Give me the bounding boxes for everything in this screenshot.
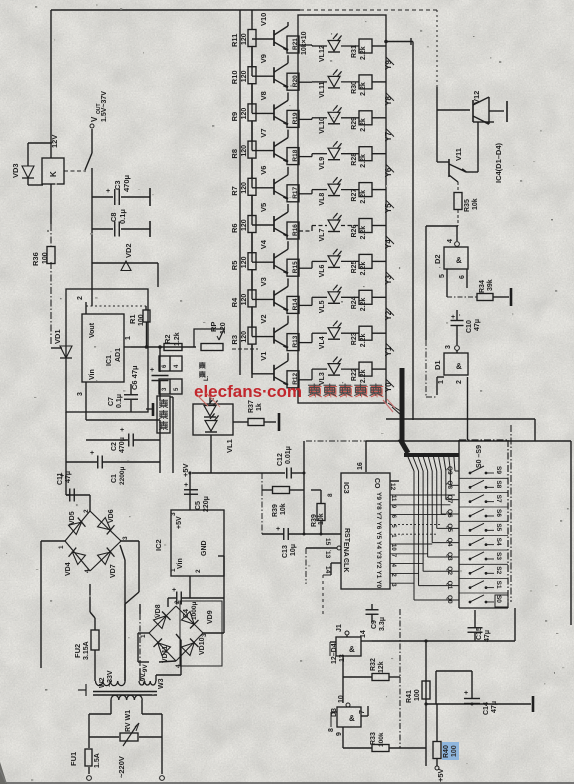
wire y671 branch xyxy=(436,670,472,672)
wire primary left xyxy=(110,700,112,714)
svg-text:120: 120 xyxy=(241,256,248,268)
wire primary right xyxy=(141,700,143,714)
wire vl1 to +5V xyxy=(210,435,212,473)
pin Y0 xyxy=(386,379,394,387)
wire left rail down xyxy=(65,412,67,462)
svg-text:Y6: Y6 xyxy=(384,167,393,177)
svg-text:VD3: VD3 xyxy=(11,163,20,178)
svg-text:S0: S0 xyxy=(495,595,502,603)
svg-text:1: 1 xyxy=(125,336,132,340)
svg-text:Q0: Q0 xyxy=(446,595,453,604)
svg-text:VL9: VL9 xyxy=(319,157,326,170)
svg-text:R33: R33 xyxy=(370,732,377,745)
junction dot row0 output xyxy=(384,40,388,44)
svg-text:VL11: VL11 xyxy=(319,81,326,97)
wire long right rail xyxy=(366,440,571,442)
svg-text:120: 120 xyxy=(241,331,248,343)
wire row 0 into led box xyxy=(299,44,312,46)
svg-text:VD6: VD6 xyxy=(108,509,115,523)
svg-text:VL6: VL6 xyxy=(319,264,326,277)
svg-text:V5: V5 xyxy=(259,203,268,212)
svg-text:C2: C2 xyxy=(111,442,118,451)
cell divider xyxy=(459,563,508,565)
svg-text:2: 2 xyxy=(77,296,84,300)
svg-text:R6: R6 xyxy=(230,223,239,233)
resistor R12 base xyxy=(287,371,299,388)
pin 1 of IC1 xyxy=(124,346,131,348)
svg-text:V2: V2 xyxy=(259,314,268,323)
pin Y4 xyxy=(386,236,394,244)
wire IC2 top to +5V rail xyxy=(189,473,191,510)
gate D2 xyxy=(456,226,458,241)
resistor R18 base xyxy=(287,148,299,165)
svg-text:VL7: VL7 xyxy=(319,229,326,242)
svg-text:FU1: FU1 xyxy=(69,752,78,766)
svg-text:Q7: Q7 xyxy=(446,495,453,504)
svg-text:0.01μ: 0.01μ xyxy=(285,446,292,464)
ground bar bottom right xyxy=(532,696,535,712)
wire collector bus vertical xyxy=(239,10,241,375)
wire row 4 into led box xyxy=(299,193,312,195)
svg-text:R39: R39 xyxy=(272,504,279,517)
pin Y9 xyxy=(386,57,394,65)
box switch array xyxy=(458,440,460,608)
pin Y8 xyxy=(386,93,394,101)
svg-text:CO: CO xyxy=(373,478,380,489)
svg-text:R3: R3 xyxy=(230,335,239,345)
svg-text:VD7: VD7 xyxy=(110,564,117,578)
svg-text:RP: RP xyxy=(209,322,218,332)
svg-text:8: 8 xyxy=(328,728,335,732)
svg-text:120: 120 xyxy=(241,145,248,157)
svg-text:S9: S9 xyxy=(495,466,502,474)
svg-text:0.1μ: 0.1μ xyxy=(116,394,123,408)
wire left rail to D1 xyxy=(425,226,427,340)
svg-text:R7: R7 xyxy=(230,186,239,196)
wire bundle thick horizontal xyxy=(404,453,459,457)
svg-text:14: 14 xyxy=(360,630,367,638)
wire CLK down dashed xyxy=(330,563,332,575)
svg-text:15: 15 xyxy=(324,538,331,546)
svg-text:10k×10: 10k×10 xyxy=(301,31,308,55)
svg-text:IC1: IC1 xyxy=(106,355,113,366)
svg-text:V6: V6 xyxy=(259,166,268,175)
svg-text:R32: R32 xyxy=(370,658,377,671)
svg-text:VL4: VL4 xyxy=(319,336,326,349)
svg-text:120: 120 xyxy=(241,219,248,231)
svg-text:R27: R27 xyxy=(351,189,358,202)
resistor R40 100 highlighted xyxy=(442,742,459,760)
svg-text:1.5V~37V: 1.5V~37V xyxy=(101,91,108,122)
cell divider xyxy=(459,477,508,479)
svg-text:12k: 12k xyxy=(378,661,385,673)
terminal Vout xyxy=(90,124,94,128)
svg-text:VD2: VD2 xyxy=(124,243,133,258)
svg-text:14: 14 xyxy=(324,566,331,574)
scan edge bottom xyxy=(0,782,574,784)
box VL1 indicator xyxy=(193,404,233,435)
wire bridge right to W2 xyxy=(120,545,125,560)
pin Y3 xyxy=(386,272,394,280)
wire IC1 pin3 down xyxy=(85,394,87,420)
pin 2 of IC1 xyxy=(85,302,87,314)
svg-text:S4: S4 xyxy=(495,538,502,546)
capacitor C8 0.1u xyxy=(92,228,113,230)
svg-text:10: 10 xyxy=(338,695,345,703)
svg-text:VL12: VL12 xyxy=(319,45,326,62)
capacitor C3 470u xyxy=(92,196,113,198)
svg-text:+: + xyxy=(106,188,110,195)
wire caps top bus xyxy=(86,419,160,421)
dash-dot from bundle down xyxy=(399,609,401,677)
wire row 6 into led box xyxy=(299,267,312,269)
wire R35 down dashed xyxy=(457,210,459,226)
svg-text:VD4: VD4 xyxy=(65,562,72,576)
svg-text:R35: R35 xyxy=(464,199,471,212)
wire up to dash-dot rail xyxy=(303,441,305,473)
wire bundle thick diagonal xyxy=(400,439,408,453)
wire right cap rail xyxy=(159,420,161,462)
label potentiometer chinese xyxy=(199,362,206,364)
pin Y5 xyxy=(386,200,394,208)
svg-text:+: + xyxy=(276,526,280,533)
wire V12 base xyxy=(436,87,438,110)
svg-text:R18: R18 xyxy=(292,149,299,161)
wire row 1 into led box xyxy=(299,81,312,83)
svg-text:IC3: IC3 xyxy=(342,482,351,494)
svg-text:VL5: VL5 xyxy=(319,300,326,313)
svg-text:R34: R34 xyxy=(479,280,486,293)
svg-text:4: 4 xyxy=(447,239,454,243)
svg-text:Vout: Vout xyxy=(89,322,96,338)
svg-text:2200μ: 2200μ xyxy=(119,467,126,485)
wire row 9 into led box xyxy=(299,379,312,381)
wire row 3 into led box xyxy=(299,156,312,158)
svg-text:R16: R16 xyxy=(292,224,299,236)
diode VD2 label xyxy=(92,262,158,264)
svg-text:100: 100 xyxy=(42,252,49,264)
svg-text:C12: C12 xyxy=(277,453,284,466)
svg-text:D2: D2 xyxy=(433,254,442,264)
svg-text:39k: 39k xyxy=(487,279,494,291)
wire W3 left dash-dot xyxy=(139,669,141,681)
wire switch down xyxy=(91,168,93,306)
diode VD3 xyxy=(28,142,52,144)
wire fan verticals to switches xyxy=(413,471,415,600)
svg-text:R19: R19 xyxy=(292,112,299,124)
svg-text:Q2: Q2 xyxy=(446,566,453,575)
transformer core xyxy=(93,691,157,693)
node wire main xyxy=(131,346,196,348)
svg-text:elecfans: elecfans xyxy=(194,382,262,401)
svg-text:Q6: Q6 xyxy=(446,509,453,518)
svg-text:~220V: ~220V xyxy=(117,756,126,778)
connector box J6 potentiometer xyxy=(159,379,182,394)
svg-text:R26: R26 xyxy=(351,225,358,238)
svg-text:Y2: Y2 xyxy=(384,310,393,320)
svg-text:47μ: 47μ xyxy=(474,319,481,331)
svg-text:Y9: Y9 xyxy=(384,60,393,70)
svg-text:V4: V4 xyxy=(259,239,268,249)
wire +5V to pin16 dash-dot xyxy=(306,440,366,442)
svg-text:&: & xyxy=(349,645,355,654)
wire right rail vertical xyxy=(412,42,414,421)
wire bottom of led box to bus xyxy=(386,418,535,420)
svg-text:+: + xyxy=(120,427,124,434)
dash-dot rail right of switches xyxy=(510,425,512,602)
wire row 5 into led box xyxy=(299,230,312,232)
resistor R21 base xyxy=(287,36,299,53)
svg-text:120: 120 xyxy=(241,294,248,306)
wire ribbon comb xyxy=(408,457,414,471)
svg-text:IC2: IC2 xyxy=(154,539,163,551)
svg-text:Y0: Y0 xyxy=(375,580,382,588)
pin 2 of D1 xyxy=(467,377,469,440)
svg-text:R24: R24 xyxy=(351,296,358,309)
wire C14 connections xyxy=(471,671,473,698)
svg-text:47μ: 47μ xyxy=(491,701,498,713)
svg-text:12: 12 xyxy=(389,483,396,491)
svg-text:Y6: Y6 xyxy=(375,521,382,529)
svg-text:RST: RST xyxy=(343,528,350,543)
wire bridge right to W2 xyxy=(121,540,139,542)
svg-text:Y5: Y5 xyxy=(375,531,382,539)
wire relay to switch dashed xyxy=(64,170,86,172)
svg-text:R22: R22 xyxy=(351,368,358,381)
svg-text:2: 2 xyxy=(83,509,90,513)
resistor R13 base xyxy=(287,334,299,351)
wire top supply rail xyxy=(51,9,300,11)
svg-text:12V: 12V xyxy=(50,135,59,148)
svg-text:GND: GND xyxy=(201,540,208,556)
wire dotted from pin2 xyxy=(86,305,146,307)
svg-text:+: + xyxy=(172,587,176,594)
capacitor C13 10u xyxy=(261,490,263,534)
capacitor C6 47u xyxy=(159,347,161,372)
svg-text:FU2: FU2 xyxy=(73,644,82,658)
box LED array xyxy=(298,15,386,403)
svg-text:VD8: VD8 xyxy=(155,604,162,618)
svg-text:S7: S7 xyxy=(495,495,502,503)
svg-text:C1: C1 xyxy=(111,474,118,483)
ground after R37 xyxy=(278,413,281,431)
wire bridge top xyxy=(89,495,91,511)
cell divider xyxy=(459,535,508,537)
wire row0 to right rail xyxy=(386,41,413,43)
connector box J5 potentiometer xyxy=(159,356,182,371)
svg-text:10k: 10k xyxy=(472,198,479,210)
box around bridge2 xyxy=(180,601,222,666)
svg-text:7: 7 xyxy=(359,710,366,714)
svg-text:Q5: Q5 xyxy=(446,523,453,532)
svg-text:Y1: Y1 xyxy=(384,346,393,356)
pin Y2 xyxy=(386,308,394,316)
svg-text:Q8: Q8 xyxy=(446,480,453,489)
svg-text:Q3: Q3 xyxy=(446,552,453,561)
svg-text:R20: R20 xyxy=(292,75,299,87)
wire right edge vertical xyxy=(570,441,572,625)
wire bridge left xyxy=(41,540,65,542)
svg-text:IC4(D1–D4): IC4(D1–D4) xyxy=(494,142,503,183)
svg-text:R37: R37 xyxy=(248,400,255,413)
terminal primary left xyxy=(87,776,92,781)
switch contact blade xyxy=(91,129,93,153)
svg-text:R13: R13 xyxy=(292,335,299,347)
svg-text:+5V: +5V xyxy=(176,516,183,529)
LED VL1 symbols xyxy=(204,399,218,418)
wire to D2 xyxy=(426,225,458,227)
svg-text:R8: R8 xyxy=(230,149,239,159)
svg-text:W3: W3 xyxy=(158,678,165,689)
IC3 box xyxy=(341,473,390,589)
svg-text:Y1: Y1 xyxy=(375,570,382,578)
svg-text:2: 2 xyxy=(195,569,202,573)
svg-text:10: 10 xyxy=(390,544,396,551)
svg-text:R5: R5 xyxy=(230,261,239,271)
svg-text:V1: V1 xyxy=(259,352,268,361)
wire bus thick vertical xyxy=(400,368,405,441)
cell divider xyxy=(459,578,508,580)
svg-text:220μ: 220μ xyxy=(203,496,210,512)
svg-text:100: 100 xyxy=(138,314,145,326)
pin 5 of D2 xyxy=(446,269,448,297)
svg-text:3.15A: 3.15A xyxy=(83,641,90,660)
wire row 7 into led box xyxy=(299,304,312,306)
svg-text:L:: L: xyxy=(204,375,210,381)
svg-text:VD10: VD10 xyxy=(199,637,206,655)
pin Y6 xyxy=(386,164,394,172)
svg-text:R14: R14 xyxy=(292,298,299,310)
wire dotted drop to V12 xyxy=(436,10,438,87)
resistor R15 base xyxy=(287,259,299,276)
svg-text:&: & xyxy=(456,256,462,265)
svg-text:1: 1 xyxy=(140,634,147,638)
svg-text:Y9: Y9 xyxy=(375,492,382,500)
svg-text:5: 5 xyxy=(439,274,446,278)
svg-text:Q9: Q9 xyxy=(446,466,453,475)
wire row 8 into led box xyxy=(299,342,312,344)
svg-text:VL3: VL3 xyxy=(319,372,326,385)
svg-text:Y7: Y7 xyxy=(375,512,382,520)
svg-text:C8: C8 xyxy=(109,212,118,222)
svg-text:V: V xyxy=(90,116,99,122)
svg-text:+: + xyxy=(150,367,154,374)
svg-text:CLK: CLK xyxy=(342,558,349,572)
svg-text:120: 120 xyxy=(241,33,248,45)
resistor R35 10k xyxy=(457,182,459,192)
svg-text:R23: R23 xyxy=(351,332,358,345)
wire dash-dot from C12 xyxy=(303,472,306,475)
wire top rail dashed continuation xyxy=(300,9,437,11)
wire left supply vertical xyxy=(50,10,52,158)
svg-text:R15: R15 xyxy=(292,261,299,273)
wire row 2 into led box xyxy=(299,118,312,120)
svg-text:3.3μ: 3.3μ xyxy=(379,617,386,631)
transformer primary W1 xyxy=(111,695,119,700)
svg-text:R21: R21 xyxy=(292,38,299,50)
wire +5V rail xyxy=(192,472,285,474)
svg-text:Y0: Y0 xyxy=(384,382,393,392)
svg-text:V11: V11 xyxy=(454,148,463,161)
svg-text:+5V: +5V xyxy=(436,768,445,782)
svg-text:C5: C5 xyxy=(195,501,202,510)
svg-text:100: 100 xyxy=(451,745,458,757)
outer box around IC1 xyxy=(66,289,148,412)
wire V12 to V11 xyxy=(436,110,438,162)
wire into VL1 box top xyxy=(209,390,211,404)
wire IC2 bottom xyxy=(189,576,191,598)
svg-text:Q4: Q4 xyxy=(446,538,453,547)
watermark chinese characters xyxy=(309,386,322,388)
relay K1 coil box xyxy=(42,158,64,184)
cell divider xyxy=(459,549,508,551)
svg-text:V9: V9 xyxy=(259,54,268,63)
svg-text:+: + xyxy=(90,450,94,457)
svg-text:120: 120 xyxy=(241,108,248,120)
svg-text:AD1: AD1 xyxy=(115,348,122,362)
label box low-voltage chinese xyxy=(157,396,170,433)
svg-text:Y3: Y3 xyxy=(384,274,393,284)
svg-text:–9V: –9V xyxy=(140,673,147,685)
svg-text:RV W1: RV W1 xyxy=(125,710,132,732)
svg-text:1.5A: 1.5A xyxy=(94,753,101,768)
svg-text:Y4: Y4 xyxy=(375,541,382,549)
svg-text:R36: R36 xyxy=(31,252,40,266)
svg-text:C4: C4 xyxy=(183,609,190,618)
pin Y7 xyxy=(386,129,394,137)
resistor R16 base xyxy=(287,222,299,239)
svg-text:1: 1 xyxy=(438,380,445,384)
svg-text:Y8: Y8 xyxy=(384,95,393,105)
svg-text:S5: S5 xyxy=(495,523,502,531)
svg-text:10k: 10k xyxy=(280,503,287,515)
svg-text:8: 8 xyxy=(327,493,334,497)
svg-text:1000μ: 1000μ xyxy=(191,602,198,620)
pin 6 of D2 xyxy=(466,269,468,288)
svg-text:Vin: Vin xyxy=(89,369,96,380)
svg-text:S1: S1 xyxy=(495,581,502,589)
svg-text:C10: C10 xyxy=(466,320,473,333)
svg-text:3: 3 xyxy=(170,512,177,516)
svg-text:120: 120 xyxy=(241,70,248,82)
svg-text:+5V: +5V xyxy=(181,463,190,477)
resistor R39 10k horizontal xyxy=(261,473,263,490)
svg-text:R31: R31 xyxy=(351,45,358,58)
IC2 box 7805 xyxy=(171,510,224,576)
svg-text:+: + xyxy=(464,690,468,697)
svg-text:+: + xyxy=(60,473,64,480)
svg-text:S3: S3 xyxy=(495,552,502,560)
svg-text:D1: D1 xyxy=(433,360,442,370)
svg-text:VD11: VD11 xyxy=(162,646,169,663)
cell divider xyxy=(459,592,508,594)
wire bottom-right ground rail xyxy=(426,703,531,705)
wire Y outputs converge xyxy=(388,403,402,412)
wire x426 vertical xyxy=(425,641,427,766)
svg-text:47μ: 47μ xyxy=(484,630,491,642)
svg-text:10μ: 10μ xyxy=(290,544,297,556)
svg-text:11: 11 xyxy=(390,495,396,502)
pin 16 of IC3 xyxy=(365,441,367,472)
svg-text:Y2: Y2 xyxy=(375,561,382,569)
svg-text:~33V: ~33V xyxy=(107,670,114,687)
svg-text:470μ: 470μ xyxy=(122,174,131,192)
pin 3 of IC1 xyxy=(85,382,87,394)
svg-text:R30: R30 xyxy=(351,81,358,94)
svg-text:3: 3 xyxy=(122,536,129,540)
svg-text:Y5: Y5 xyxy=(384,203,393,213)
resistor R17 base xyxy=(287,185,299,202)
